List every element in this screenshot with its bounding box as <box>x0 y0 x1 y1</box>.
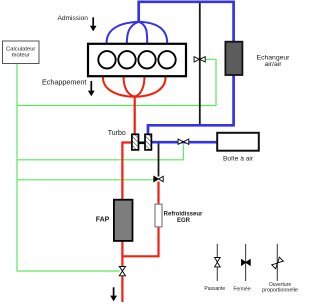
turbo turbine (hatched right) <box>145 134 151 150</box>
svg-text:proportionnelle: proportionnelle <box>262 288 298 294</box>
svg-text:Passante: Passante <box>204 286 225 292</box>
turbo shaft <box>139 142 146 145</box>
wire: red EGR hot line valve->cooler <box>157 182 159 205</box>
svg-text:Echappement: Echappement <box>42 78 86 87</box>
svg-text:moteur: moteur <box>12 53 30 59</box>
engine block <box>88 44 186 76</box>
svg-text:EGR: EGR <box>177 218 191 224</box>
cylinder 2 <box>118 51 135 68</box>
svg-text:Fermée: Fermée <box>233 287 250 293</box>
wire: red FAP out down to valve V4 <box>121 241 123 267</box>
wire: green branch to exhaust valve V4 <box>17 270 120 272</box>
wire: blue charge line turbo->air box <box>151 141 217 144</box>
legend valve passante (vertical open) <box>215 258 221 267</box>
wire: black intercooler bypass line <box>199 2 201 126</box>
svg-text:Refroidisseur: Refroidisseur <box>164 211 203 217</box>
svg-text:Admission: Admission <box>57 15 88 22</box>
legend line 3 <box>276 244 278 281</box>
wire: red tailpipe below valve V4 <box>121 276 123 302</box>
legend valve ouverture proportionnelle (diagonal open) <box>272 257 284 269</box>
exhaust manifold (red) <box>103 76 166 97</box>
valve V4 exhaust flap (vertical, open) <box>119 267 125 276</box>
refroidisseur EGR box <box>155 204 162 227</box>
wire: red turbine out to FAP <box>122 143 132 200</box>
exhaust outlet arrow <box>113 287 115 296</box>
wire: green branch to EGR valve V3 <box>17 179 156 181</box>
legend valve fermee (filled) <box>242 260 251 266</box>
wire: black EGR supply line from intake <box>158 142 160 177</box>
legend line 1 <box>216 244 218 281</box>
wire: blue intake line engine->intercooler->turbo <box>139 2 234 135</box>
wire: green branch to intake throttle valve V2 <box>17 144 183 160</box>
valve V2 intake throttle (open) <box>178 139 189 144</box>
intake manifold (blue) <box>107 22 168 44</box>
svg-text:FAP: FAP <box>96 216 110 223</box>
wire: green branch to intercooler bypass valve V1 <box>17 59 216 105</box>
legend line 2 <box>245 244 247 281</box>
turbo compressor (hatched left) <box>132 134 139 150</box>
cylinder 4 <box>158 51 175 68</box>
svg-text:Turbo: Turbo <box>108 130 126 137</box>
echappement arrow <box>90 81 92 91</box>
cylinder 1 <box>98 51 115 68</box>
wire: green control bus vertical from calculateur <box>16 64 18 272</box>
svg-text:air/air: air/air <box>265 61 283 68</box>
svg-text:Calculateur: Calculateur <box>6 46 35 52</box>
svg-text:Boîte à air: Boîte à air <box>223 156 254 163</box>
admission arrow <box>92 17 94 26</box>
wire: red exhaust riser to turbo <box>134 97 136 135</box>
cylinder 3 <box>138 51 155 68</box>
FAP box <box>114 200 133 241</box>
wire: red EGR cooler out to exhaust junction <box>122 227 158 256</box>
valve V3 EGR (left half filled) <box>154 176 159 181</box>
echangeur air/air box <box>225 42 242 75</box>
valve V1 intercooler bypass (open) <box>194 57 205 62</box>
boite a air box <box>217 133 259 151</box>
calculateur moteur box <box>3 41 40 64</box>
